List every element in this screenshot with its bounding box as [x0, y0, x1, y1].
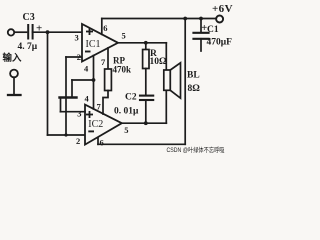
- svg-text:3: 3: [77, 109, 81, 119]
- IC1 pin6 riser: [101, 19, 103, 35]
- node A junction dot: [46, 30, 50, 34]
- svg-text:4. 7μ: 4. 7μ: [18, 42, 38, 52]
- wire RP to IC2 pin7: [103, 91, 108, 115]
- node D junction dot: [92, 78, 96, 82]
- svg-text:2: 2: [77, 52, 81, 62]
- capacitor C3: [27, 25, 29, 39]
- svg-text:6: 6: [103, 23, 107, 33]
- capacitor C1 top lead: [200, 19, 202, 33]
- resistor R: [145, 43, 147, 50]
- wire C3 to node A: [33, 31, 48, 33]
- svg-text:0. 01μ: 0. 01μ: [114, 107, 139, 117]
- capacitor C2 bottom lead: [145, 100, 147, 123]
- svg-text:CSDN @叶绿体不忘呼吸: CSDN @叶绿体不忘呼吸: [167, 145, 226, 154]
- wire R to C2: [145, 69, 147, 96]
- IC2 pin3 riser to ground: [60, 98, 62, 112]
- IC2 output wire pin5: [122, 122, 167, 124]
- wire J1 to C3: [14, 31, 26, 33]
- junction dot pin2 net: [64, 133, 67, 136]
- label IC1 minus: [85, 51, 91, 53]
- wire node A down left side: [47, 32, 49, 135]
- capacitor C1 bottom lead: [200, 39, 202, 51]
- wire to speaker top: [165, 43, 167, 70]
- ground bar at J2: [8, 94, 21, 96]
- svg-text:8Ω: 8Ω: [188, 84, 201, 94]
- wire bottom left to IC2 pin2: [48, 134, 86, 136]
- IC2 pin3 wire: [61, 111, 86, 113]
- svg-text:IC1: IC1: [86, 39, 101, 50]
- ground branch riser: [71, 80, 73, 98]
- capacitor C1: [194, 32, 209, 34]
- svg-text:3: 3: [75, 33, 79, 43]
- +6V rail: [102, 18, 216, 20]
- ground bus bar: [60, 96, 77, 98]
- svg-text:470μF: 470μF: [207, 38, 233, 48]
- node rail-right junction dot: [183, 17, 187, 21]
- IC1 pin4 / IC2 pin4 wire: [93, 56, 95, 109]
- svg-text:+: +: [36, 23, 42, 35]
- potentiometer RP: [105, 69, 112, 91]
- svg-text:470k: 470k: [113, 65, 132, 75]
- svg-text:5: 5: [124, 125, 128, 135]
- label IC1 plus: [86, 28, 93, 35]
- svg-text:C1: C1: [207, 25, 219, 35]
- ground branch wire: [72, 79, 94, 81]
- wire J2 to ground: [13, 77, 15, 94]
- svg-text:C2: C2: [125, 93, 137, 103]
- svg-text:BL: BL: [187, 71, 200, 81]
- input terminal J2: [10, 70, 18, 78]
- wire node A to IC1 pin3: [48, 31, 83, 33]
- capacitor C2: [140, 95, 153, 97]
- svg-text:5: 5: [122, 31, 126, 41]
- svg-text:输入: 输入: [3, 52, 23, 64]
- svg-text:10Ω: 10Ω: [150, 57, 168, 67]
- node rail-C1 junction dot: [199, 17, 203, 21]
- svg-text:IC2: IC2: [88, 119, 103, 130]
- op-amp IC2: [85, 105, 122, 145]
- wire bottom rail: [98, 143, 185, 145]
- +6V terminal: [216, 16, 223, 23]
- IC1 output wire pin5: [118, 42, 166, 44]
- svg-text:+6V: +6V: [212, 3, 233, 15]
- svg-text:2: 2: [76, 136, 80, 146]
- svg-text:6: 6: [100, 138, 104, 148]
- speaker BL body: [164, 70, 171, 90]
- wire right side down: [184, 19, 186, 145]
- input terminal J1: [8, 29, 14, 35]
- svg-text:C3: C3: [23, 12, 35, 23]
- label IC2 plus: [86, 111, 93, 118]
- speaker BL cone: [170, 63, 180, 98]
- IC2 pin6 riser: [97, 137, 99, 144]
- wire IC1 pin2 left: [66, 56, 82, 58]
- node B junction dot: [144, 41, 148, 45]
- node C junction dot: [144, 121, 148, 125]
- op-amp IC1: [82, 24, 118, 62]
- wire IC1 pin2 down: [65, 57, 67, 135]
- IC1 pin7 lead: [107, 48, 109, 69]
- label IC2 minus: [88, 130, 94, 132]
- wire to speaker bottom: [165, 90, 167, 123]
